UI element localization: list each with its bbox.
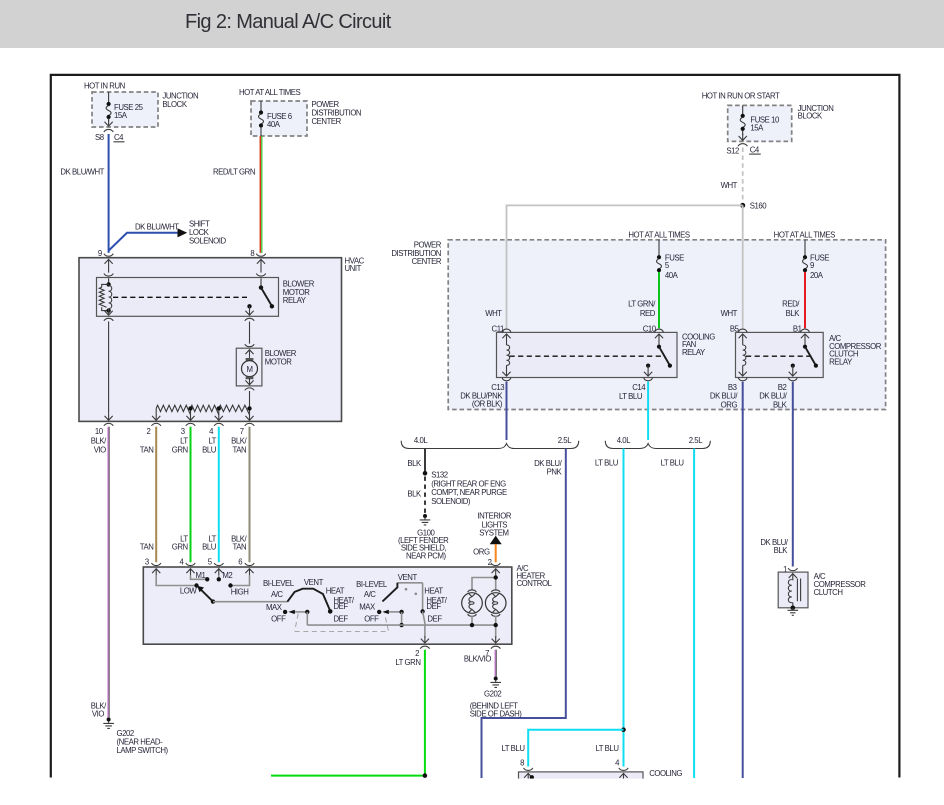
- connector control pin 4: [186, 563, 195, 566]
- svg-text:S8: S8: [95, 133, 104, 142]
- lamp 1 feed from pin 2: [472, 575, 496, 590]
- mode switch 2 MAX contact and wiper: [377, 610, 381, 614]
- fuse 9 element: [804, 240, 806, 256]
- cooling fan relay coil: [502, 334, 510, 341]
- svg-text:DEF: DEF: [334, 615, 349, 624]
- svg-text:BLU: BLU: [202, 445, 217, 454]
- connector clutch pin 1: [788, 568, 797, 571]
- connector at relay pin (coil top): [104, 274, 113, 277]
- blower switch feed pin4 to M1 contact: [191, 575, 206, 579]
- svg-text:9: 9: [810, 261, 814, 270]
- svg-text:6: 6: [238, 558, 242, 567]
- svg-text:RELAY: RELAY: [682, 348, 706, 357]
- lamp 1 (illumination): [468, 590, 477, 592]
- wire LT GRN bottom horizontal: [271, 775, 425, 777]
- svg-text:OFF: OFF: [271, 615, 286, 624]
- svg-text:HOT IN RUN OR START: HOT IN RUN OR START: [702, 92, 780, 101]
- mode switch 2 wiper arm: [383, 583, 398, 602]
- svg-text:ORG: ORG: [473, 548, 490, 557]
- connector B2: [789, 378, 798, 381]
- ground below clutch: [788, 608, 799, 615]
- connector cooling fan pin 8: [524, 768, 533, 771]
- wire inside HVAC from coil to pin 10: [108, 322, 110, 414]
- svg-text:(RIGHT REAR OF ENG: (RIGHT REAR OF ENG: [431, 479, 506, 488]
- a/c compressor clutch relay box: [736, 332, 824, 377]
- svg-text:CLUTCH: CLUTCH: [814, 588, 843, 597]
- svg-text:OFF: OFF: [364, 615, 379, 624]
- relay actuator dashed line: [510, 355, 662, 357]
- cooling fan relay box: [497, 332, 678, 377]
- svg-text:LT BLU: LT BLU: [661, 458, 685, 467]
- svg-text:C11: C11: [492, 325, 504, 334]
- fuse 5 element: [658, 240, 660, 256]
- svg-text:BI-LEVEL: BI-LEVEL: [356, 580, 388, 589]
- svg-text:C4: C4: [114, 133, 124, 142]
- svg-text:NEAR PCM): NEAR PCM): [406, 551, 447, 560]
- wire BLK/VIO pin 10 to G202: [107, 427, 109, 718]
- svg-text:LT GRN/: LT GRN/: [628, 299, 656, 308]
- blower resistor segment 3: [219, 405, 250, 415]
- svg-text:BLK/: BLK/: [231, 437, 247, 446]
- svg-text:MAX: MAX: [359, 603, 376, 612]
- wire LT GRN pin 3 to control pin 4: [190, 427, 192, 563]
- connector below blower motor: [245, 388, 254, 391]
- svg-text:LT: LT: [208, 437, 216, 446]
- svg-text:8: 8: [520, 758, 524, 767]
- connector cooling fan pin 4: [619, 768, 628, 771]
- svg-text:M2: M2: [222, 571, 232, 580]
- svg-text:C10: C10: [643, 325, 657, 334]
- power distribution center (fuse 6) dashed box: [251, 101, 307, 136]
- mode switch 2 top contact line: [397, 582, 422, 584]
- wire WHT from S160 to B5: [742, 205, 744, 328]
- svg-text:PNK: PNK: [547, 468, 563, 477]
- mode switch 2 contact dots: [405, 588, 408, 591]
- wire BLK (4.0L) solid: [424, 449, 426, 472]
- connector C10: [655, 329, 664, 332]
- a/c relay coil: [739, 334, 747, 341]
- diagram frame border: [51, 75, 900, 778]
- svg-text:TAN: TAN: [140, 543, 154, 552]
- svg-text:LT BLU: LT BLU: [619, 392, 643, 401]
- svg-text:RELAY: RELAY: [283, 296, 307, 305]
- svg-text:CENTER: CENTER: [312, 117, 342, 126]
- svg-text:M: M: [246, 365, 252, 374]
- svg-text:BI-LEVEL: BI-LEVEL: [263, 579, 295, 588]
- svg-text:DEF: DEF: [426, 602, 441, 611]
- connector C13: [502, 378, 511, 381]
- a/c compressor clutch coil: [789, 574, 797, 581]
- svg-text:Fig 2: Manual A/C Circuit: Fig 2: Manual A/C Circuit: [185, 11, 392, 33]
- bottom cut mask: [0, 779, 944, 805]
- cooling fan motor box (cut off): [519, 772, 644, 784]
- svg-text:LT: LT: [180, 437, 188, 446]
- svg-text:LOW: LOW: [180, 586, 198, 595]
- a/c heater control box: [143, 567, 512, 644]
- svg-text:TAN: TAN: [233, 445, 247, 454]
- connector pin 9: [104, 254, 113, 257]
- node S132: [423, 471, 428, 476]
- svg-text:INTERIOR: INTERIOR: [477, 512, 511, 521]
- mode switch 2 selector line to pin 2 output: [422, 583, 424, 610]
- svg-text:BLK: BLK: [786, 309, 801, 318]
- svg-text:TAN: TAN: [233, 543, 247, 552]
- svg-text:2: 2: [147, 427, 151, 436]
- wire WHT vertical to C11 (inside box): [506, 240, 508, 329]
- connector below relay (coil side): [104, 318, 113, 321]
- svg-text:(OR BLK): (OR BLK): [472, 400, 503, 409]
- svg-text:BLK: BLK: [407, 459, 422, 468]
- svg-text:LAMP SWITCH): LAMP SWITCH): [117, 746, 169, 755]
- svg-text:HOT AT ALL TIMES: HOT AT ALL TIMES: [628, 230, 690, 239]
- connector above blower motor: [245, 344, 254, 347]
- blower motor element: [245, 350, 253, 357]
- svg-text:RELAY: RELAY: [829, 357, 853, 366]
- cooling fan pin leads (cut): [524, 773, 532, 780]
- svg-text:40A: 40A: [267, 120, 281, 129]
- svg-text:BLK: BLK: [774, 546, 789, 555]
- svg-text:B1: B1: [793, 325, 802, 334]
- connector C4 half below fuse 25: [104, 129, 113, 132]
- svg-text:VENT: VENT: [304, 578, 324, 587]
- svg-text:4.0L: 4.0L: [414, 436, 428, 445]
- svg-text:SIDE OF DASH): SIDE OF DASH): [470, 710, 523, 719]
- blower resistor segment 1: [156, 405, 190, 415]
- fuse 6 element: [260, 101, 262, 111]
- wire LT GRN from control pin 2 to bottom: [424, 650, 426, 776]
- svg-text:TAN: TAN: [140, 445, 154, 454]
- svg-text:C4: C4: [750, 145, 760, 154]
- wire BLK dashed to G100: [424, 477, 426, 515]
- svg-text:2: 2: [415, 649, 419, 658]
- svg-text:RED/LT GRN: RED/LT GRN: [213, 168, 255, 177]
- svg-text:2.5L: 2.5L: [689, 436, 703, 445]
- svg-text:WHT: WHT: [721, 309, 738, 318]
- connector control pin 2 (bottom): [420, 646, 429, 649]
- svg-text:BLU: BLU: [202, 543, 217, 552]
- svg-text:4.0L: 4.0L: [617, 436, 631, 445]
- wire TAN pin 2 to control pin 3: [155, 427, 157, 563]
- connector control pin 6: [245, 563, 254, 566]
- connector pin 8: [256, 254, 265, 257]
- connector B5: [738, 329, 747, 332]
- blower relay actuator dashed line: [113, 296, 247, 298]
- svg-text:S132: S132: [431, 471, 448, 480]
- svg-text:LT BLU: LT BLU: [595, 458, 619, 467]
- connector C4 half below fuse 10: [738, 144, 747, 147]
- svg-text:HEAT: HEAT: [424, 586, 443, 595]
- cooling fan relay switch: [655, 334, 663, 341]
- junction block (fuse 25) dashed box: [92, 92, 158, 127]
- svg-text:8: 8: [250, 249, 254, 258]
- blower relay coil: [108, 278, 110, 283]
- ground G202 (behind dash): [490, 677, 501, 688]
- wire wiper to mode switch: [213, 601, 288, 603]
- svg-text:BLK/VIO: BLK/VIO: [464, 655, 492, 664]
- svg-text:B5: B5: [730, 325, 740, 334]
- a/c relay switch: [801, 334, 809, 341]
- svg-text:WHT: WHT: [485, 309, 502, 318]
- svg-text:RED: RED: [640, 309, 656, 318]
- connector control pin 3: [152, 563, 161, 566]
- wire motor to resistor junction: [249, 391, 251, 408]
- pin 9 lead into blower relay: [105, 259, 113, 266]
- svg-text:SYSTEM: SYSTEM: [479, 528, 508, 537]
- svg-text:DEF: DEF: [427, 615, 442, 624]
- blower switch wiper arm: [200, 589, 213, 602]
- power distribution center large dashed box: [448, 240, 885, 410]
- svg-text:A/C: A/C: [364, 590, 376, 599]
- svg-text:MOTOR: MOTOR: [265, 357, 292, 366]
- title bar: [0, 0, 944, 48]
- svg-text:DK BLU/: DK BLU/: [710, 392, 738, 401]
- lamp 2 lead to bus and pin 7 output: [495, 616, 497, 638]
- wire DK BLU/ORG from B3 down (long): [742, 382, 744, 778]
- connectors below HVAC box pins 10,2,3,4,7: [104, 423, 113, 426]
- connector B1: [801, 329, 810, 332]
- svg-text:BLK: BLK: [407, 490, 422, 499]
- svg-text:15A: 15A: [114, 111, 128, 120]
- svg-text:DK BLU/: DK BLU/: [759, 392, 787, 401]
- mode switch 1 contact arc: [287, 589, 330, 611]
- brace left (engine split): [401, 441, 579, 449]
- illumination bus: [307, 624, 495, 626]
- svg-text:BLK/: BLK/: [91, 437, 107, 446]
- clutch ground node: [791, 606, 796, 611]
- svg-text:G202: G202: [484, 690, 501, 699]
- wire WHT from S160 to C11: [507, 205, 743, 328]
- junction block (fuse 10) dashed box: [728, 105, 792, 141]
- connector control pin 2 (top): [491, 563, 500, 566]
- svg-text:LT GRN: LT GRN: [395, 658, 420, 667]
- pin 8 lead into blower relay: [257, 259, 265, 266]
- svg-text:10: 10: [95, 427, 104, 436]
- lamp 1 lead to bus: [471, 616, 473, 626]
- svg-text:S160: S160: [750, 202, 768, 211]
- svg-text:RED/: RED/: [782, 299, 800, 308]
- svg-text:CENTER: CENTER: [412, 257, 442, 266]
- connector C14: [644, 378, 653, 381]
- wire LT BLU (4.0L) down to cooling fan motor: [623, 449, 625, 767]
- blower switch feed pin6 to HIGH contact: [233, 575, 250, 585]
- svg-text:VENT: VENT: [398, 573, 418, 582]
- connector control pin 5: [214, 563, 223, 566]
- blower resistor segment 2: [191, 405, 219, 415]
- svg-text:M1: M1: [196, 571, 206, 580]
- svg-text:SOLENOID): SOLENOID): [431, 497, 471, 506]
- brace right (engine split): [605, 441, 710, 449]
- wire from relay to blower motor: [249, 322, 251, 344]
- mode switch 1 output to bus: [306, 612, 308, 625]
- ground G100: [420, 514, 431, 525]
- fuse 10 element: [742, 105, 744, 114]
- resistor tap junction dots: [188, 406, 192, 410]
- svg-text:COMPT, NEAR PURGE: COMPT, NEAR PURGE: [431, 488, 507, 497]
- svg-text:HOT IN RUN: HOT IN RUN: [84, 82, 125, 91]
- connector below relay (switch output): [245, 318, 254, 321]
- connector at relay pin (switch common): [256, 274, 265, 277]
- HVAC unit box: [79, 258, 342, 422]
- svg-text:HOT AT ALL TIMES: HOT AT ALL TIMES: [774, 230, 836, 239]
- svg-text:ORG: ORG: [721, 401, 738, 410]
- wire ORG to control pin 2: [495, 544, 497, 562]
- svg-text:COOLING: COOLING: [649, 769, 682, 778]
- svg-text:GRN: GRN: [172, 543, 188, 552]
- svg-text:LT BLU: LT BLU: [501, 744, 525, 753]
- blower motor relay box: [97, 278, 279, 317]
- svg-text:VIO: VIO: [94, 445, 106, 454]
- blower switch feed pin3 to LOW contact: [156, 575, 194, 585]
- svg-text:VIO: VIO: [92, 710, 104, 719]
- svg-text:S12: S12: [726, 146, 739, 155]
- wire DK BLU/PNK from C13 to brace: [506, 382, 508, 440]
- blower switch feed pin5 to M2 contact: [218, 575, 220, 577]
- svg-text:3: 3: [181, 427, 185, 436]
- wire branch to shift lock solenoid: [109, 233, 178, 251]
- mode switch 1 MAX contact and wiper: [283, 610, 287, 614]
- arrow to interior lights system: [490, 536, 502, 545]
- svg-text:HOT AT ALL TIMES: HOT AT ALL TIMES: [239, 88, 301, 97]
- svg-text:GRN: GRN: [172, 445, 188, 454]
- svg-text:MAX: MAX: [266, 603, 283, 612]
- wire WHT vertical to B5 (inside box): [742, 240, 744, 329]
- wire LT GRN/RED from fuse 5 to C10: [658, 272, 660, 328]
- blower motor box: [236, 348, 262, 386]
- lamp 2 (illumination): [491, 590, 500, 592]
- wire LT BLU from C14 to brace: [647, 382, 649, 440]
- svg-text:DK BLU/WHT: DK BLU/WHT: [60, 168, 104, 177]
- wire BLK/TAN pin 7 to control pin 6: [249, 427, 251, 563]
- svg-text:DEF: DEF: [334, 602, 349, 611]
- svg-text:HEAT: HEAT: [326, 586, 345, 595]
- svg-text:HIGH: HIGH: [231, 587, 249, 596]
- wire RED/BLK from fuse 9 to B1: [804, 272, 806, 328]
- wire RED/LT GRN from fuse 6 to HVAC pin 8: [259, 136, 261, 253]
- ground G202 (near headlamp switch): [103, 718, 114, 729]
- svg-text:BLOCK: BLOCK: [798, 111, 823, 120]
- wire LT BLU branch to pin 8: [528, 730, 623, 767]
- wire BLK/VIO from control pin 7 to G202: [494, 650, 496, 677]
- svg-text:3: 3: [145, 558, 149, 567]
- relay actuator dashed line (a/c relay): [746, 355, 812, 357]
- svg-text:2.5L: 2.5L: [558, 436, 572, 445]
- connector B3: [738, 378, 747, 381]
- mechanical linkage dashed: [295, 614, 389, 632]
- wire LT BLU (2.5L) down to cut: [693, 449, 695, 779]
- resistor leads to pins 2,3,4,7: [155, 408, 157, 413]
- svg-text:A/C: A/C: [271, 590, 283, 599]
- svg-text:CONTROL: CONTROL: [517, 579, 553, 588]
- svg-text:40A: 40A: [665, 271, 679, 280]
- node S160: [740, 203, 745, 208]
- connector control pin 7 (bottom): [491, 646, 500, 649]
- junction dot on LT BLU wire: [621, 727, 626, 732]
- a/c compressor clutch box: [778, 572, 808, 608]
- svg-text:DK BLU/WHT: DK BLU/WHT: [135, 223, 179, 232]
- wire DK BLU/PNK (2.5L) down and to cut: [482, 449, 566, 779]
- fuse 25 element: [108, 92, 110, 103]
- wire WHT dashed from C4 to S160: [742, 148, 744, 204]
- svg-text:2: 2: [488, 558, 492, 567]
- svg-text:C14: C14: [632, 383, 646, 392]
- svg-text:7: 7: [240, 427, 244, 436]
- pin lead arrows inside control box: [152, 569, 160, 576]
- wire LT BLU pin 4 to control pin 5: [218, 427, 220, 563]
- blower relay switch: [260, 278, 262, 286]
- connector C11: [502, 329, 511, 332]
- clutch plates: [797, 579, 800, 602]
- svg-text:WHT: WHT: [721, 181, 738, 190]
- arrow to shift lock solenoid: [178, 228, 188, 237]
- wire DK BLU/BLK from B2 to clutch: [792, 382, 794, 567]
- svg-text:UNIT: UNIT: [345, 264, 362, 273]
- wire DK BLU/WHT from fuse 25 to HVAC pin 9: [108, 134, 110, 253]
- mode switch 2 output to bus: [401, 612, 403, 625]
- svg-text:LT BLU: LT BLU: [595, 744, 619, 753]
- svg-text:20A: 20A: [810, 271, 824, 280]
- svg-text:9: 9: [98, 249, 102, 258]
- svg-text:15A: 15A: [750, 123, 764, 132]
- svg-text:SOLENOID: SOLENOID: [189, 237, 227, 246]
- svg-text:BLK: BLK: [773, 401, 788, 410]
- svg-text:BLOCK: BLOCK: [162, 100, 187, 109]
